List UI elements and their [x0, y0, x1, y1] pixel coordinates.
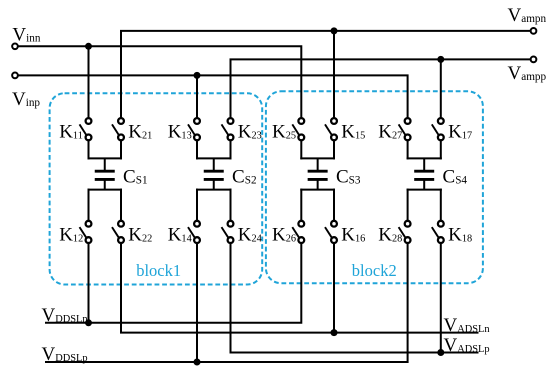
svg-text:K22: K22 [128, 225, 152, 246]
wire split down to K14 [196, 189, 198, 221]
wire split down to K22 [120, 189, 122, 221]
node Vampn/K15 junction [331, 27, 338, 34]
block1 boundary (dashed) [50, 93, 263, 284]
wire net Vinn (from Vinn terminal right, elbow down to K25) [18, 46, 301, 118]
switch K28 [399, 221, 411, 243]
wire net VADSLn (elbow from K22 down, runs right under label) [121, 243, 479, 333]
wire K11 bottom to merge bar [88, 140, 90, 159]
switch K21 [112, 118, 124, 140]
wire K17 bottom to merge bar [440, 140, 442, 159]
wire split down to K18 [440, 189, 442, 221]
wire K14 bottom to VDDSLp [196, 243, 198, 362]
wire CS2 bottom plate stub [213, 179, 215, 189]
svg-text:K17: K17 [448, 122, 472, 143]
capacitor CS3 [308, 171, 328, 179]
svg-text:K15: K15 [341, 122, 365, 143]
svg-text:K16: K16 [341, 225, 365, 246]
svg-text:Vinn: Vinn [12, 25, 40, 46]
wire split down to K12 [88, 189, 90, 221]
wire merge bar above CS2 [196, 157, 232, 159]
wire split down to K16 [333, 189, 335, 221]
svg-text:K21: K21 [128, 122, 152, 143]
svg-text:Vampn: Vampn [508, 5, 547, 26]
wire net Vinp (from Vinp terminal right, elbow down to K27) [18, 75, 408, 118]
switch K16 [325, 221, 337, 243]
wire net Vampp (elbow at K23 top, runs right to Vampp terminal) [231, 59, 531, 118]
wire split down to K28 [407, 189, 409, 221]
terminal Vampn [531, 28, 537, 34]
switch K12 [80, 221, 92, 243]
wire merge bar above CS1 [88, 157, 123, 159]
svg-text:CS3: CS3 [336, 166, 361, 187]
wire Vampn tap down to K15 [333, 31, 335, 118]
wire stub to CS2 top plate [213, 158, 215, 171]
node Vinn/K11 junction [85, 43, 92, 50]
wire CS4 bottom plate stub [423, 179, 425, 189]
wire stub to CS1 top plate [104, 158, 106, 171]
node Vampp/K17 junction [437, 56, 444, 63]
wire net VADSLp (elbow from K24 down, runs right under label) [231, 243, 479, 353]
wire merge bar below CS4 [407, 189, 442, 191]
svg-text:CS4: CS4 [443, 166, 468, 187]
capacitor CS1 [95, 171, 115, 179]
node Vinp/K13 junction [194, 72, 201, 79]
node VADSLn/K16 junction [331, 329, 338, 336]
capacitor CS4 [414, 171, 434, 179]
terminal Vinp [12, 73, 18, 79]
svg-text:CS1: CS1 [123, 166, 148, 187]
svg-text:block1: block1 [136, 261, 181, 280]
svg-text:VADSLp: VADSLp [444, 335, 490, 356]
svg-text:VDDSLp: VDDSLp [42, 344, 88, 365]
terminal Vampp [531, 57, 537, 63]
svg-text:K18: K18 [448, 225, 472, 246]
svg-text:CS2: CS2 [232, 166, 257, 187]
switch K11 [80, 118, 92, 140]
svg-text:K24: K24 [238, 225, 262, 246]
wire K13 bottom to merge bar [196, 140, 198, 159]
switch K15 [325, 118, 337, 140]
wire CS1 bottom plate stub [104, 179, 106, 189]
wire Vinn tap down to K11 [88, 46, 90, 118]
wire merge bar below CS1 [88, 189, 123, 191]
switch K27 [399, 118, 411, 140]
svg-text:Vampp: Vampp [508, 63, 547, 84]
switch K22 [112, 221, 124, 243]
wire merge bar above CS4 [407, 157, 442, 159]
wire merge bar below CS3 [300, 189, 335, 191]
wire net VDDSLp (left end under label, dot at K14, elbow up to K28) [45, 243, 408, 362]
svg-text:Vinp: Vinp [12, 89, 40, 110]
wire K21 bottom to merge bar [120, 140, 122, 159]
wire K18 bottom to VADSLp [440, 243, 442, 353]
switch K24 [222, 221, 234, 243]
svg-text:K23: K23 [238, 122, 262, 143]
switch K13 [188, 118, 200, 140]
wire stub to CS3 top plate [317, 158, 319, 171]
wire split down to K26 [300, 189, 302, 221]
wire K23 bottom to merge bar [230, 140, 232, 159]
node VADSLp/K18 junction [437, 349, 444, 356]
wire K12 bottom to VDDSLn [88, 243, 90, 323]
wire merge bar above CS3 [300, 157, 335, 159]
wire split down to K24 [230, 189, 232, 221]
switch K18 [432, 221, 444, 243]
svg-text:block2: block2 [352, 261, 397, 280]
switch K25 [292, 118, 304, 140]
wire Vinp tap down to K13 [196, 75, 198, 118]
node VDDSLp/K14 junction [194, 359, 201, 366]
switch K14 [188, 221, 200, 243]
wire net VDDSLn (left end under label, dot at K12, elbow up to K26) [45, 243, 301, 323]
wire CS3 bottom plate stub [317, 179, 319, 189]
switch K17 [432, 118, 444, 140]
block2 boundary (dashed) [266, 91, 483, 283]
wire K16 bottom to VADSLn [333, 243, 335, 333]
terminal Vinn [12, 43, 18, 49]
svg-text:VADSLn: VADSLn [444, 315, 491, 336]
wire K27 bottom to merge bar [407, 140, 409, 159]
wire merge bar below CS2 [196, 189, 232, 191]
switch K23 [222, 118, 234, 140]
wire stub to CS4 top plate [423, 158, 425, 171]
wire Vampp tap down to K17 [440, 59, 442, 118]
capacitor CS2 [204, 171, 224, 179]
wire net Vampn (elbow at K21 top, runs right to Vampn terminal, tap to K15) [121, 31, 531, 118]
svg-text:VDDSLn: VDDSLn [42, 305, 89, 326]
node VDDSLn/K12 junction [85, 319, 92, 326]
wire K15 bottom to merge bar [333, 140, 335, 159]
wire K25 bottom to merge bar [300, 140, 302, 159]
switch K26 [292, 221, 304, 243]
